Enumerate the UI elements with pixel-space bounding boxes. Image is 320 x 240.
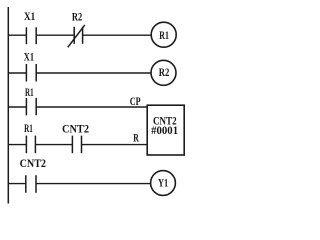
svg-text:CNT2: CNT2: [62, 121, 89, 135]
svg-text:Y1: Y1: [158, 176, 168, 190]
svg-text:R2: R2: [72, 9, 82, 23]
counter box CNT2 #0001: [147, 105, 184, 155]
left power rail: [7, 7, 9, 204]
wire rung 4: [8, 144, 147, 146]
NC contact R2 (rung 1): [68, 25, 85, 47]
svg-text:X1: X1: [24, 9, 35, 23]
svg-text:X1: X1: [24, 49, 34, 63]
svg-text:CP: CP: [130, 94, 141, 108]
coil Y1: [151, 171, 176, 196]
svg-text:R: R: [133, 130, 139, 144]
contact X1 (rung 1): [26, 27, 36, 44]
svg-text:#0001: #0001: [151, 123, 178, 137]
coil R1: [151, 22, 176, 47]
contact CNT2 (rung 4): [72, 136, 81, 154]
wire rung 5: [8, 183, 151, 185]
svg-text:CNT2: CNT2: [20, 156, 46, 170]
coil R2: [151, 60, 176, 85]
contact R1 (rung 4): [26, 136, 35, 154]
svg-text:R1: R1: [159, 28, 169, 42]
contact R1 (rung 3): [26, 98, 36, 115]
svg-text:R1: R1: [25, 85, 34, 99]
wire rung 2: [8, 72, 151, 74]
svg-text:R1: R1: [24, 121, 33, 135]
svg-text:R2: R2: [159, 65, 170, 79]
contact X1 (rung 2): [26, 64, 36, 82]
contact CNT2 (rung 5): [26, 175, 36, 193]
wire rung 1: [8, 34, 151, 36]
wire rung 3: [8, 106, 147, 108]
